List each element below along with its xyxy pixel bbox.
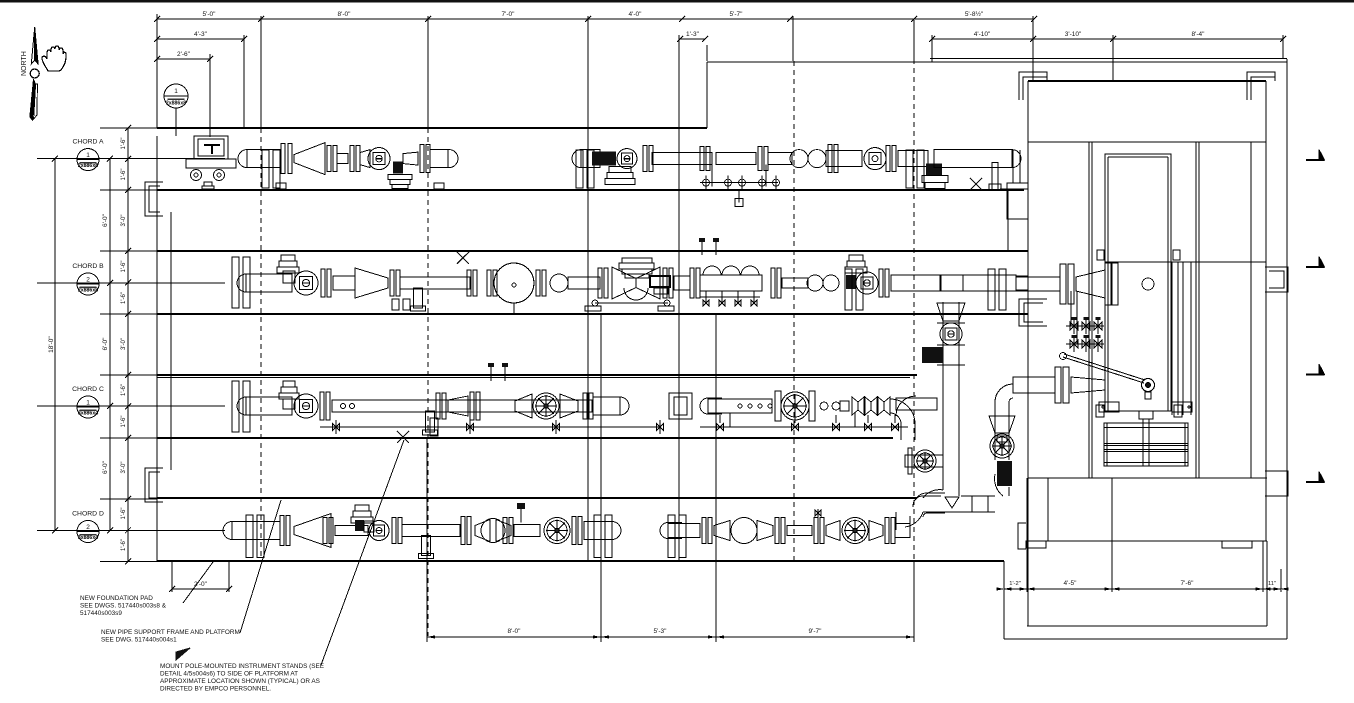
svg-text:NEW PIPE SUPPORT FRAME AND PLA: NEW PIPE SUPPORT FRAME AND PLATFORM: [101, 629, 240, 636]
svg-text:DETAIL 4/5s004s6) TO SIDE OF P: DETAIL 4/5s004s6) TO SIDE OF PLATFORM AT: [160, 671, 298, 678]
svg-text:APPROXIMATE LOCATION SHOWN (TY: APPROXIMATE LOCATION SHOWN (TYPICAL) OR …: [160, 678, 320, 685]
svg-text:1'-6": 1'-6": [121, 539, 127, 551]
svg-text:6'-0": 6'-0": [102, 337, 109, 351]
svg-text:7'-6": 7'-6": [1181, 580, 1195, 587]
svg-text:1'-6": 1'-6": [121, 138, 127, 150]
svg-text:CHORD A: CHORD A: [73, 139, 104, 146]
svg-text:1'-6": 1'-6": [121, 169, 127, 181]
svg-text:5'-7": 5'-7": [730, 11, 744, 18]
svg-text:7'-0": 7'-0": [502, 11, 516, 18]
svg-text:1'-3": 1'-3": [686, 31, 700, 38]
svg-text:6'-0": 6'-0": [102, 213, 109, 227]
svg-text:NORTH: NORTH: [21, 51, 28, 76]
svg-text:3'-10": 3'-10": [1065, 31, 1082, 38]
svg-text:2: 2: [86, 524, 90, 531]
svg-text:4'-10": 4'-10": [974, 31, 991, 38]
svg-text:CHORD B: CHORD B: [72, 263, 104, 270]
svg-text:DIRECTED BY EMPCO PERSONNEL.: DIRECTED BY EMPCO PERSONNEL.: [160, 686, 271, 693]
svg-text:2x886x8: 2x886x8: [78, 288, 98, 294]
svg-text:1'-6": 1'-6": [121, 292, 127, 304]
svg-text:3x886x4: 3x886x4: [78, 535, 98, 541]
svg-text:3'-0": 3'-0": [121, 215, 127, 227]
svg-text:2'-6": 2'-6": [177, 51, 191, 58]
svg-text:5'-0": 5'-0": [203, 11, 217, 18]
svg-text:18'-0": 18'-0": [48, 336, 55, 353]
svg-text:SEE DWG. 517440s004s1: SEE DWG. 517440s004s1: [101, 637, 177, 644]
svg-text:8'-0": 8'-0": [338, 11, 352, 18]
svg-text:9'-7": 9'-7": [809, 628, 823, 635]
svg-text:1: 1: [86, 400, 90, 407]
svg-text:1'-2": 1'-2": [1009, 581, 1021, 587]
svg-text:8'-0": 8'-0": [508, 628, 522, 635]
svg-text:4'-0": 4'-0": [629, 11, 643, 18]
svg-text:SEE DWGS. 517440s003s8 &: SEE DWGS. 517440s003s8 &: [80, 603, 167, 610]
svg-text:1: 1: [174, 88, 178, 95]
svg-text:4'-3": 4'-3": [194, 31, 208, 38]
svg-text:6'-0": 6'-0": [102, 460, 109, 474]
svg-text:NEW FOUNDATION PAD: NEW FOUNDATION PAD: [80, 595, 153, 602]
svg-text:1'-6": 1'-6": [121, 416, 127, 428]
svg-text:5'-3": 5'-3": [654, 628, 668, 635]
svg-text:1'-6": 1'-6": [121, 508, 127, 520]
svg-text:CHORD C: CHORD C: [72, 386, 104, 393]
svg-text:517440s003s9: 517440s003s9: [80, 610, 122, 617]
svg-text:11": 11": [1268, 581, 1276, 587]
svg-text:CHORD D: CHORD D: [72, 511, 104, 518]
svg-text:3x886x4: 3x886x4: [78, 411, 98, 417]
svg-text:1'-6": 1'-6": [121, 261, 127, 273]
svg-text:5'-8½": 5'-8½": [965, 10, 984, 18]
svg-text:8'-4": 8'-4": [1192, 31, 1206, 38]
svg-text:1'-6": 1'-6": [121, 384, 127, 396]
svg-text:1: 1: [86, 152, 90, 159]
svg-text:2: 2: [86, 277, 90, 284]
svg-text:3'-0": 3'-0": [121, 462, 127, 474]
svg-text:2'-0": 2'-0": [194, 581, 208, 588]
svg-text:MOUNT POLE-MOUNTED INSTRUMENT: MOUNT POLE-MOUNTED INSTRUMENT STANDS (SE…: [160, 663, 324, 670]
svg-text:4'-5": 4'-5": [1064, 580, 1078, 587]
svg-text:3'-0": 3'-0": [121, 338, 127, 350]
svg-text:2x886x8: 2x886x8: [78, 163, 98, 169]
svg-text:2x886x8: 2x886x8: [166, 101, 186, 107]
